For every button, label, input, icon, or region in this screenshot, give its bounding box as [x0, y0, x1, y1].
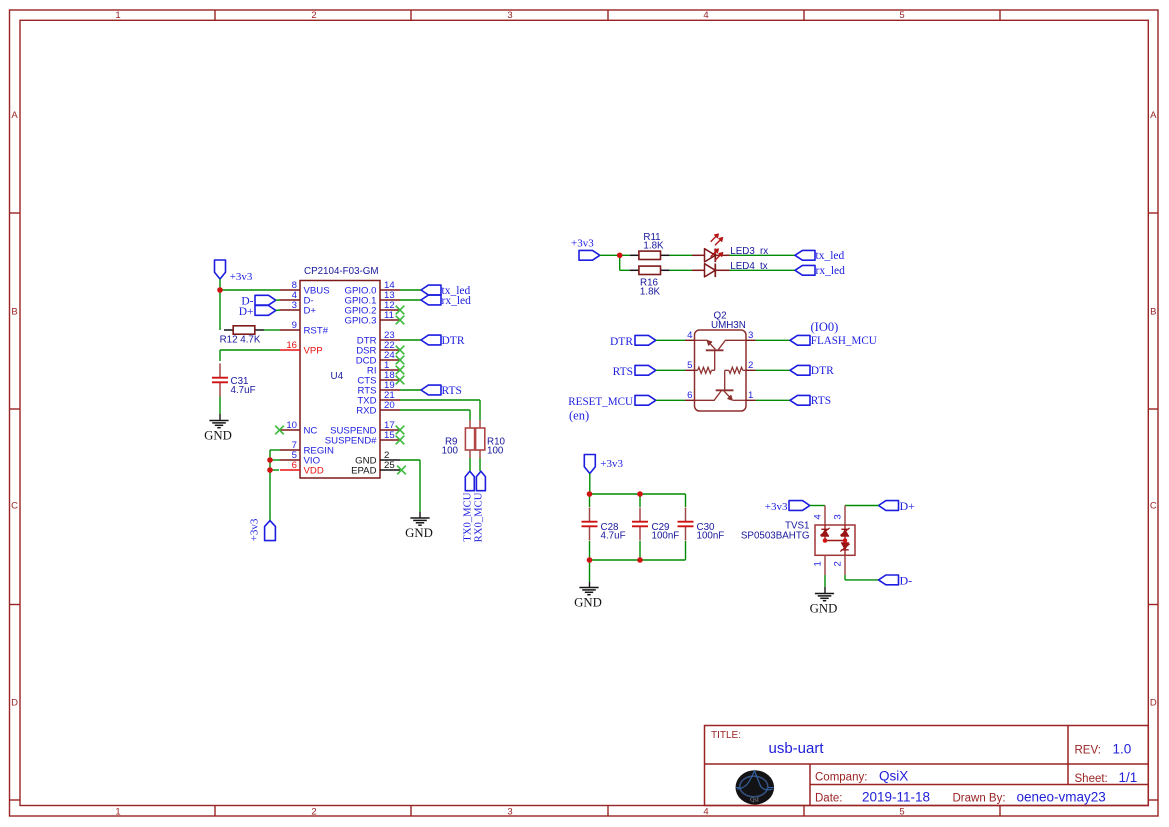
svg-text:1.8K: 1.8K [640, 286, 661, 297]
TVS1 internal diode right upper [840, 525, 849, 540]
svg-text:Company:: Company: [815, 772, 867, 784]
no-connect X on U4 pin 25 [397, 466, 406, 475]
svg-text:CP2104-F03-GM: CP2104-F03-GM [304, 266, 379, 277]
svg-text:GPIO.3: GPIO.3 [345, 316, 377, 327]
port RX0_MCU [473, 471, 486, 542]
svg-text:3: 3 [507, 10, 512, 21]
svg-text:VDD: VDD [304, 466, 324, 477]
wire +3v3 node down to R12 [219, 290, 221, 330]
no-connect X on U4 pin 18 [396, 376, 405, 385]
svg-text:+3v3: +3v3 [249, 518, 261, 541]
wire TVS pin 2 to D- [845, 575, 879, 580]
power flag +3v3 at TVS [765, 501, 810, 513]
power flag +3v3 at LED rail [571, 237, 600, 260]
U4 pin 9 RST# [280, 329, 300, 331]
svg-text:3: 3 [748, 330, 753, 341]
svg-text:1: 1 [748, 390, 753, 401]
junction at R11/R16 node [617, 253, 623, 259]
ground symbol below TVS1 [815, 593, 834, 595]
svg-text:R12 4.7K: R12 4.7K [220, 335, 261, 346]
capacitor C28 [582, 494, 626, 560]
svg-text:1: 1 [115, 806, 120, 817]
TVS1 pin 2 [833, 555, 846, 575]
U4 pin 19 RTS [380, 389, 400, 391]
power flag +3v3 above C28 [584, 455, 623, 495]
Q2 pin 5 [685, 369, 695, 371]
svg-text:Date:: Date: [815, 793, 843, 805]
port RTS (to Q2 pin 5) [613, 365, 685, 378]
wire +3v3 to U4 VBUS [220, 289, 280, 291]
capacitor C29 [632, 494, 679, 560]
TVS1 pin 1 [813, 555, 826, 575]
U4 pin 15 SUSPEND# [380, 439, 400, 441]
ground symbol below U4 GND pin [410, 517, 429, 519]
svg-text:1: 1 [813, 561, 824, 566]
wire R10 to RX0_MCU port [479, 458, 481, 471]
no-connect X on U4 pin 11 [396, 316, 405, 325]
svg-text:(en): (en) [569, 409, 589, 423]
frame column numbers top [115, 10, 904, 21]
wire R12 to U4 RST# [264, 329, 280, 331]
Q2 pin 3 [746, 339, 756, 341]
svg-text:EPAD: EPAD [351, 466, 376, 477]
svg-text:TITLE:: TITLE: [711, 730, 741, 741]
junction at VIO [267, 457, 273, 463]
TVS1 internal junction left [823, 538, 828, 543]
svg-text:QsI: QsI [750, 798, 759, 804]
svg-text:9: 9 [292, 320, 297, 331]
no-connect X on U4 pin 12 [396, 306, 405, 315]
svg-text:tx_led: tx_led [816, 250, 845, 262]
Q2 base resistor (pin 5) [695, 367, 715, 373]
port RTS (from Q2 pin 1) [756, 395, 832, 407]
svg-text:D: D [11, 698, 18, 709]
svg-text:oeneo-vmay23: oeneo-vmay23 [1017, 790, 1106, 805]
svg-text:U4: U4 [331, 371, 344, 382]
junction C28 bottom [587, 557, 593, 563]
no-connect X on U4 pin 10 [275, 426, 284, 435]
svg-text:4: 4 [687, 330, 693, 341]
svg-text:11: 11 [384, 310, 394, 321]
no-connect X on U4 pin 22 [396, 346, 405, 355]
port DTR (from Q2 pin 2) [756, 365, 835, 377]
svg-text:100nF: 100nF [652, 531, 680, 542]
svg-text:5: 5 [899, 806, 904, 817]
svg-text:GND: GND [574, 596, 602, 610]
svg-text:15: 15 [384, 430, 395, 441]
svg-text:RX0_MCU: RX0_MCU [473, 492, 485, 542]
frame column numbers bottom [115, 806, 904, 817]
svg-text:100: 100 [442, 445, 459, 456]
power flag +3v3 below U4 [249, 518, 276, 541]
svg-text:16: 16 [286, 340, 297, 351]
TVS1 internal diode left [820, 525, 829, 540]
junction C29 bottom [637, 557, 643, 563]
Q2 internal transistor (pins 6-1) [695, 367, 747, 400]
svg-text:D: D [1150, 698, 1157, 709]
svg-text:VPP: VPP [304, 346, 323, 357]
svg-text:2019-11-18: 2019-11-18 [862, 790, 930, 805]
U4 pin 22 DSR [380, 349, 400, 351]
U4 pin 5 VIO [280, 459, 300, 461]
svg-text:RXD: RXD [356, 406, 376, 417]
svg-text:RTS: RTS [442, 385, 462, 397]
wire LED4 to rx_led port [730, 269, 796, 271]
company logo [736, 770, 775, 804]
svg-text:D+: D+ [304, 306, 317, 317]
wire cap bank to ground [589, 560, 591, 588]
LED LED3 [692, 234, 768, 262]
resistor R12 [220, 326, 264, 346]
U4 pin 10 NC [280, 429, 300, 431]
wire C31 to ground [219, 397, 221, 421]
svg-text:DTR: DTR [442, 335, 465, 347]
U4 pin 23 DTR [380, 339, 400, 341]
U4 pin 4 D- [280, 299, 300, 301]
resistor R16 [630, 266, 670, 297]
svg-text:DTR: DTR [811, 365, 834, 377]
svg-text:10: 10 [286, 420, 297, 431]
U4 pin 24 DCD [380, 359, 400, 361]
svg-text:RTS: RTS [613, 366, 633, 378]
svg-text:+3v3: +3v3 [571, 237, 594, 249]
U4 pin 3 D+ [280, 309, 300, 311]
svg-text:4.7uF: 4.7uF [231, 385, 256, 396]
svg-text:20: 20 [384, 400, 395, 411]
svg-text:DTR: DTR [610, 336, 633, 348]
port DTR (to Q2 pin 4) [610, 335, 685, 348]
U4 pin 20 RXD [380, 409, 400, 411]
svg-text:A: A [1150, 110, 1157, 121]
port rx_led (right) [795, 265, 845, 277]
wire VPP net [220, 350, 280, 361]
U4 pin 25 EPAD [380, 469, 400, 471]
TVS1 pin 3 [833, 506, 846, 526]
port DTR (at U4 pin 23) [400, 335, 465, 347]
junction at +3v3 / VBUS node [217, 287, 223, 293]
svg-text:usb-uart: usb-uart [769, 740, 825, 757]
svg-text:GND: GND [405, 526, 433, 540]
svg-text:GND: GND [810, 602, 838, 616]
wire R16 to LED4 [670, 269, 692, 271]
Q2 internal transistor (pins 4-3) [695, 340, 747, 370]
frame row letters left [11, 110, 18, 709]
wire LED3 to tx_led port [730, 254, 796, 256]
U4 pin 6 VDD [280, 469, 300, 471]
svg-text:Drawn By:: Drawn By: [953, 793, 1006, 805]
svg-text:D+: D+ [900, 499, 916, 513]
power flag +3v3 top-left [215, 260, 253, 288]
svg-text:REV:: REV: [1075, 745, 1101, 757]
svg-text:B: B [1150, 307, 1156, 318]
resistor R10 [476, 420, 506, 458]
wire TVS pin 1 to ground [824, 575, 826, 594]
no-connect X on U4 pin 15 [396, 436, 405, 445]
U4 pin 16 VPP [280, 349, 300, 351]
wire junction down to R16 [619, 255, 621, 270]
wire RXD to R9 [400, 410, 470, 420]
Q2 pin 4 [685, 339, 695, 341]
U4 pin 14 GPIO.0 [380, 289, 400, 291]
capacitor C31 [212, 364, 256, 397]
port RESET_MCU (to Q2 pin 6) [568, 395, 685, 422]
svg-text:6: 6 [292, 460, 297, 471]
svg-text:rx_led: rx_led [816, 265, 846, 277]
port D- (left) [241, 295, 280, 307]
svg-text:D-: D- [900, 574, 913, 588]
wire +3v3 to TVS pin 4 [810, 505, 825, 507]
port D+ (left) [239, 306, 280, 319]
LED LED4 [692, 249, 768, 277]
U4 pin 21 TXD [380, 399, 400, 401]
U4 pin 13 GPIO.1 [380, 299, 400, 301]
capacitor C30 [678, 494, 725, 560]
junction at VDD [267, 467, 273, 473]
svg-text:2: 2 [311, 806, 316, 817]
TVS1 internal link [825, 540, 845, 542]
svg-text:QsiX: QsiX [879, 769, 908, 784]
wire junction to R11 [620, 254, 630, 256]
U4 pin 1 RI [380, 369, 400, 371]
transistor Q2 UMH3N body [695, 310, 747, 411]
TVS diode array TVS1 SP0503BAHTG body [741, 521, 855, 556]
svg-text:B: B [11, 307, 17, 318]
svg-text:4: 4 [703, 10, 708, 21]
port RTS (at U4 pin 19) [400, 385, 462, 397]
port tx_led (right) [795, 250, 844, 262]
resistor R9 [442, 420, 475, 458]
svg-text:D+: D+ [239, 306, 254, 318]
title block grid [705, 726, 1149, 806]
svg-text:2: 2 [748, 360, 753, 371]
wire +3v3 flag to junction [600, 254, 617, 256]
frame row letters right [1150, 110, 1157, 709]
resistor R11 [630, 232, 670, 259]
wire REGIN/VIO/VDD +3v3 net [270, 450, 280, 521]
svg-text:100: 100 [487, 445, 504, 456]
svg-text:4.7uF: 4.7uF [601, 531, 626, 542]
wire D+ to TVS pin 3 [845, 505, 879, 507]
svg-text:1.8K: 1.8K [643, 241, 664, 252]
svg-text:SP0503BAHTG: SP0503BAHTG [741, 531, 810, 542]
svg-text:1: 1 [115, 10, 120, 21]
port FLASH_MCU (from Q2 pin 3) [756, 320, 877, 347]
wire U4 GND pin to ground [400, 460, 420, 518]
port rx_led (at U4 GPIO.1) [400, 295, 471, 307]
TVS1 internal junction right [843, 538, 848, 543]
Q2 pin 6 [685, 399, 695, 401]
svg-text:3: 3 [833, 514, 844, 519]
junction C29 top [637, 491, 643, 497]
wire top rail of cap bank [590, 493, 686, 495]
svg-text:25: 25 [384, 460, 395, 471]
svg-text:2: 2 [833, 561, 844, 566]
svg-text:FLASH_MCU: FLASH_MCU [811, 335, 877, 347]
U4 pin 11 GPIO.3 [380, 319, 400, 321]
U4 pin 18 CTS [380, 379, 400, 381]
svg-text:5: 5 [687, 360, 692, 371]
junction C28 top [587, 491, 593, 497]
svg-text:RESET_MCU: RESET_MCU [568, 396, 633, 408]
IC U4 CP2104-F03-GM body [300, 281, 380, 479]
svg-text:Sheet:: Sheet: [1075, 773, 1108, 785]
svg-text:5: 5 [899, 10, 904, 21]
Q2 pin 1 [746, 399, 756, 401]
svg-text:+3v3: +3v3 [600, 458, 623, 470]
svg-text:A: A [11, 110, 18, 121]
svg-text:2: 2 [311, 10, 316, 21]
port tx_led (at U4 GPIO.0) [400, 285, 470, 297]
svg-text:4: 4 [703, 806, 708, 817]
svg-text:SUSPEND#: SUSPEND# [325, 436, 377, 447]
svg-text:GND: GND [204, 429, 232, 443]
svg-text:C: C [1150, 501, 1157, 512]
wire R9 to TX0_MCU port [469, 458, 471, 471]
svg-text:C: C [11, 501, 18, 512]
svg-text:rx_led: rx_led [442, 295, 472, 307]
port TX0_MCU [462, 471, 475, 542]
U4 pin 17 SUSPEND [380, 429, 400, 431]
svg-text:3: 3 [507, 806, 512, 817]
svg-text:+3v3: +3v3 [230, 271, 253, 283]
wire to R16 [620, 269, 630, 271]
wire bottom rail of cap bank [590, 559, 686, 561]
U4 pin 2 GND [380, 459, 400, 461]
svg-text:(IO0): (IO0) [811, 320, 839, 334]
svg-text:UMH3N: UMH3N [711, 320, 746, 331]
svg-text:RST#: RST# [304, 326, 329, 337]
svg-text:3: 3 [292, 300, 297, 311]
port D- (at TVS) [879, 574, 913, 588]
no-connect X on U4 pin 24 [396, 356, 405, 365]
no-connect X on U4 pin 1 [396, 366, 405, 375]
TVS1 internal diode right lower [840, 541, 849, 556]
svg-text:1.0: 1.0 [1113, 742, 1132, 757]
svg-text:RTS: RTS [811, 395, 831, 407]
svg-text:6: 6 [687, 390, 692, 401]
svg-text:1/1: 1/1 [1119, 770, 1138, 785]
TVS1 pin 4 [813, 506, 826, 526]
ground symbol below C31 [209, 420, 228, 422]
svg-text:NC: NC [304, 426, 318, 437]
U4 pin 7 REGIN [280, 449, 300, 451]
U4 pin 8 VBUS [280, 289, 300, 291]
Q2 pin 2 [746, 369, 756, 371]
port D+ (at TVS) [879, 499, 916, 513]
svg-text:100nF: 100nF [697, 531, 725, 542]
svg-text:4: 4 [813, 514, 824, 520]
svg-text:+3v3: +3v3 [765, 501, 788, 513]
no-connect X on U4 pin 17 [396, 426, 405, 435]
wire R11 to LED3 [670, 254, 692, 256]
U4 pin 12 GPIO.2 [380, 309, 400, 311]
wire TXD to R10 [400, 400, 480, 420]
ground symbol below cap bank [579, 587, 598, 589]
